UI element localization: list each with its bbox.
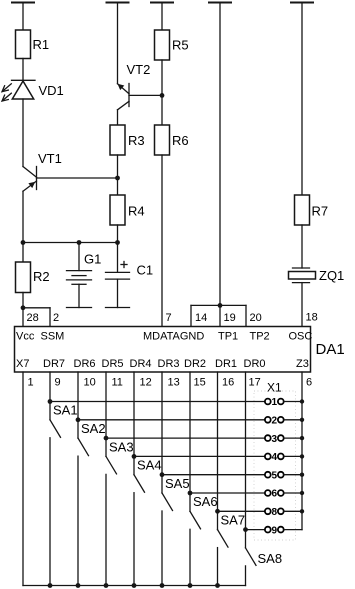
svg-text:8: 8	[272, 507, 278, 518]
wire rail3 to R5	[161, 3, 163, 31]
svg-text:R7: R7	[312, 204, 329, 219]
svg-text:SA4: SA4	[137, 458, 162, 473]
node switch SA2 / X1 row 2	[76, 417, 81, 422]
X1 contact 6 right	[278, 490, 284, 496]
junction node G1	[77, 240, 82, 245]
wire pin to switch SA5 top	[161, 372, 163, 493]
X1 contact 2 right	[278, 417, 284, 423]
svg-text:2: 2	[53, 312, 59, 324]
svg-text:6: 6	[306, 377, 312, 389]
terminal bar top rail 5	[290, 2, 314, 4]
resistor R1	[16, 30, 31, 59]
svg-text:18: 18	[306, 312, 318, 324]
wire node to pins 14 and 20	[191, 304, 246, 306]
junction node left	[21, 240, 26, 245]
wire X1 row 8 left	[218, 510, 265, 512]
X1 contact 6 left	[265, 490, 271, 496]
node Z3 bus row 2	[300, 418, 304, 422]
transistor VT1 (PNP)	[23, 167, 37, 192]
terminal bar top rail 2	[106, 2, 130, 4]
wire R6 to pin 7	[161, 155, 163, 327]
svg-text:SA1: SA1	[53, 403, 78, 418]
wire pin 6 Z3 bus	[301, 372, 303, 530]
switch SA7 blade	[218, 530, 229, 548]
resistor R6	[155, 125, 170, 155]
X1 contact 1 right	[278, 399, 284, 405]
wire to R2	[22, 243, 24, 263]
wire switch SA5 bottom	[161, 511, 163, 586]
svg-text:Z3: Z3	[296, 358, 309, 370]
wire switch SA7 bottom	[217, 548, 219, 586]
wire X1 row 2 right	[284, 419, 302, 421]
node bus SA2	[76, 583, 81, 588]
node bus SA1	[48, 583, 53, 588]
switch SA8 blade	[246, 548, 257, 566]
wire pin to switch SA3 top	[105, 372, 107, 456]
wire rail4 to pin 19	[219, 3, 221, 327]
node bus SA6	[188, 583, 193, 588]
node switch SA8 / X1 row 9	[243, 527, 248, 532]
junction node C1	[115, 240, 120, 245]
node Z3 bus row 4	[300, 454, 304, 458]
svg-text:VT2: VT2	[127, 62, 151, 77]
node bus SA3	[104, 583, 109, 588]
wire pin 1 X7 down to ground bus	[22, 372, 24, 586]
svg-text:X1: X1	[267, 381, 282, 395]
svg-text:1: 1	[272, 397, 278, 408]
svg-text:DR4: DR4	[130, 358, 152, 370]
svg-text:SA6: SA6	[193, 494, 218, 509]
wire pin to switch SA7 top	[217, 372, 219, 530]
wire VT1 emitter down	[22, 191, 24, 242]
wire switch SA2 bottom	[77, 456, 79, 585]
node switch SA5 / X1 row 5	[160, 472, 165, 477]
node bus SA5	[160, 583, 165, 588]
wire X1 row 8 right	[284, 510, 302, 512]
wire G1 down	[78, 284, 80, 307]
node bus SA7	[215, 583, 220, 588]
wire pin 14	[190, 305, 192, 326]
resistor R2	[16, 262, 31, 293]
wire X1 row 9 left	[246, 529, 265, 531]
wire X1 row 5 left	[162, 474, 265, 476]
svg-text:OSC: OSC	[289, 331, 313, 343]
wire pin 20	[245, 305, 247, 326]
svg-text:SA5: SA5	[165, 476, 190, 491]
wire pin to switch SA4 top	[133, 372, 135, 475]
svg-text:SA7: SA7	[221, 513, 246, 528]
node switch SA4 / X1 row 4	[132, 454, 137, 459]
svg-text:ZQ1: ZQ1	[319, 268, 344, 283]
wire X1 row 6 left	[190, 492, 265, 494]
switch SA2 blade	[78, 438, 89, 456]
wire node to pin 2	[23, 307, 50, 309]
svg-text:Vcc: Vcc	[16, 331, 35, 343]
terminal bar C1 bottom	[106, 307, 130, 309]
svg-text:DR6: DR6	[74, 358, 96, 370]
switch SA4 blade	[134, 475, 145, 493]
node switch SA7 / X1 row 8	[215, 509, 220, 514]
X1 contact 3 right	[278, 435, 284, 441]
wire X1 row 4 left	[134, 455, 265, 457]
wire pin to switch SA1 top	[49, 372, 51, 420]
svg-text:6: 6	[272, 489, 278, 500]
terminal bar top rail 4	[208, 2, 232, 4]
wire X1 row 3 right	[284, 437, 302, 439]
X1 contact 4 left	[265, 454, 271, 460]
VD1 light arrows	[2, 84, 11, 101]
svg-text:R4: R4	[128, 204, 145, 219]
X1 contact 8 right	[278, 508, 284, 514]
svg-text:SSM: SSM	[41, 331, 65, 343]
transistor VT2 (NPN)	[118, 84, 130, 110]
switch SA3 blade	[106, 456, 117, 474]
wire horizontal supply node	[23, 242, 118, 244]
svg-text:R5: R5	[172, 38, 189, 53]
wire X1 row 9 right	[284, 529, 302, 531]
wire R7 to ZQ1	[301, 225, 303, 268]
svg-text:SA8: SA8	[258, 551, 283, 566]
svg-text:16: 16	[222, 377, 234, 389]
svg-text:TP2: TP2	[250, 331, 270, 343]
svg-text:DA1: DA1	[316, 341, 345, 358]
wire switch SA4 bottom	[133, 493, 135, 586]
wire X1 row 1 left	[50, 401, 265, 403]
svg-text:20: 20	[250, 312, 262, 324]
svg-text:14: 14	[195, 312, 207, 324]
node Z3 bus row 8	[300, 509, 304, 513]
node switch SA6 / X1 row 6	[188, 491, 193, 496]
connector X1 dashed outline	[254, 391, 296, 540]
wire rail2 to VT2 emitter	[117, 3, 119, 84]
wire pin to switch SA8 top	[245, 372, 247, 548]
svg-text:G1: G1	[84, 252, 101, 267]
svg-text:9: 9	[55, 377, 61, 389]
switch SA5 blade	[162, 493, 173, 511]
wire to G1	[78, 243, 80, 271]
junction node pin28	[21, 305, 26, 310]
junction node VT1 base	[115, 176, 120, 181]
junction node rail4	[218, 303, 223, 308]
svg-text:7: 7	[166, 312, 172, 324]
wire VT2 base	[129, 94, 162, 96]
switch SA6 blade	[190, 511, 201, 529]
node Z3 bus row 3	[300, 436, 304, 440]
node switch SA3 / X1 row 3	[104, 436, 109, 441]
wire rail1 to R1	[22, 3, 24, 31]
node Z3 bus row 1	[300, 399, 304, 403]
X1 contact 5 right	[278, 472, 284, 478]
X1 contact 9 left	[265, 527, 271, 533]
wire R3 to R4	[117, 155, 119, 195]
wire VD1 to VT1 collector	[22, 99, 24, 167]
svg-text:13: 13	[168, 377, 180, 389]
wire R4 down	[117, 225, 119, 243]
terminal bar top rail 1	[11, 2, 35, 4]
svg-text:MDATAGND: MDATAGND	[143, 331, 204, 343]
node Z3 bus row 6	[300, 491, 304, 495]
X1 contact 9 right	[278, 527, 284, 533]
resistor R7	[295, 195, 310, 225]
wire pin to switch SA6 top	[189, 372, 191, 511]
wire ZQ1 to pin 18	[301, 283, 303, 327]
X1 contact 2 left	[265, 417, 271, 423]
svg-text:R2: R2	[33, 269, 50, 284]
resistor R5	[155, 30, 170, 60]
wire pin 28	[22, 308, 24, 327]
terminal bar G1 bottom	[67, 307, 92, 309]
svg-text:17: 17	[249, 377, 261, 389]
junction node VT2 base	[160, 93, 165, 98]
svg-text:3: 3	[272, 434, 278, 445]
node Z3 bus row 5	[300, 473, 304, 477]
svg-text:SA2: SA2	[81, 421, 106, 436]
svg-text:28: 28	[27, 312, 39, 324]
wire switch SA6 bottom	[189, 529, 191, 585]
X1 contact 3 left	[265, 435, 271, 441]
switch SA1 blade	[50, 420, 61, 438]
wire switch SA3 bottom	[105, 474, 107, 585]
svg-text:C1: C1	[137, 263, 154, 278]
wire VT2 collector to R3	[117, 110, 119, 125]
X1 contact 5 left	[265, 472, 271, 478]
svg-text:12: 12	[140, 377, 152, 389]
svg-text:R6: R6	[172, 133, 189, 148]
svg-text:X7: X7	[16, 358, 29, 370]
svg-text:19: 19	[224, 312, 236, 324]
svg-text:DR7: DR7	[43, 358, 65, 370]
svg-text:DR1: DR1	[215, 358, 237, 370]
X1 contact 8 left	[265, 508, 271, 514]
crystal ZQ1	[289, 268, 316, 283]
wire X1 row 3 left	[106, 437, 265, 439]
X1 contact 1 left	[265, 399, 271, 405]
node switch SA1 / X1 row 1	[48, 399, 53, 404]
battery G1	[67, 271, 92, 285]
svg-text:15: 15	[194, 377, 206, 389]
wire switch SA1 bottom	[49, 438, 51, 586]
wire R2 to pin28 node	[22, 293, 24, 308]
svg-text:11: 11	[112, 377, 123, 389]
svg-text:5: 5	[272, 470, 278, 481]
terminal bar top rail 3	[150, 2, 174, 4]
wire X1 row 6 right	[284, 492, 302, 494]
svg-text:1: 1	[28, 377, 34, 389]
wire C1 down	[117, 279, 119, 307]
wire X1 row 2 left	[78, 419, 265, 421]
svg-text:R3: R3	[128, 133, 145, 148]
wire X1 row 5 right	[284, 474, 302, 476]
wire X1 row 1 right	[284, 401, 302, 403]
op-amp/encoder IC DA1 body	[15, 327, 311, 373]
wire X1 row 4 right	[284, 455, 302, 457]
resistor R4	[110, 195, 125, 225]
node bus SA4	[132, 583, 137, 588]
svg-text:DR5: DR5	[102, 358, 124, 370]
svg-text:R1: R1	[33, 37, 50, 52]
wire rail5 to R7	[301, 3, 303, 196]
wire pin to switch SA2 top	[77, 372, 79, 438]
svg-text:SA3: SA3	[109, 439, 134, 454]
svg-text:VD1: VD1	[39, 83, 64, 98]
svg-text:2: 2	[272, 416, 278, 427]
resistor R3	[110, 125, 125, 155]
svg-text:TP1: TP1	[218, 331, 238, 343]
X1 contact 4 right	[278, 454, 284, 460]
capacitor C1 polarized	[106, 262, 130, 280]
svg-text:DR0: DR0	[244, 358, 266, 370]
wire to C1	[117, 243, 119, 273]
wire R1 to VD1	[22, 59, 24, 81]
svg-text:DR3: DR3	[158, 358, 180, 370]
ground bus bottom	[23, 585, 246, 587]
photodiode VD1	[12, 80, 36, 99]
svg-text:VT1: VT1	[38, 151, 62, 166]
wire pin 2	[49, 308, 51, 327]
wire switch SA8 bottom	[245, 566, 247, 586]
wire R5 to R6	[161, 60, 163, 125]
svg-text:4: 4	[272, 452, 278, 463]
svg-text:9: 9	[272, 525, 278, 536]
svg-text:DR2: DR2	[184, 358, 206, 370]
svg-text:10: 10	[84, 377, 96, 389]
wire VT1 base to R3/R4 node	[37, 177, 118, 179]
